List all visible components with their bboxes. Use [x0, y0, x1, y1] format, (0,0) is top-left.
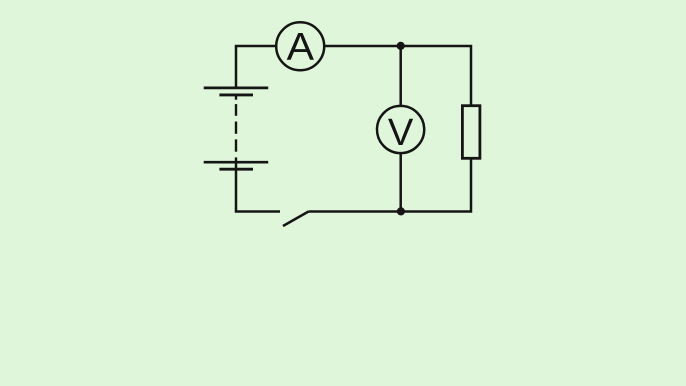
- wire: resistor bottom down to bottom-right corner then left to switch: [309, 158, 472, 212]
- battery cell B1 long plate: [204, 87, 269, 90]
- voltmeter V: [377, 106, 424, 154]
- wire: battery top to top-left corner to top-right corner down to resistor: [236, 46, 471, 106]
- node: bottom junction: [397, 207, 405, 215]
- ammeter A: [276, 22, 324, 70]
- node: top junction: [397, 42, 405, 50]
- battery cell B2 short plate: [219, 168, 253, 171]
- wire: bottom-left from switch left contact to battery bottom: [236, 162, 280, 212]
- battery cell B1 short plate: [219, 93, 253, 96]
- svg-text:V: V: [388, 111, 414, 154]
- switch S (open blade): [283, 212, 309, 227]
- svg-text:A: A: [287, 26, 315, 69]
- resistor R: [462, 106, 480, 159]
- dashed link between cells: [235, 96, 237, 164]
- battery cell B2 long plate: [204, 161, 269, 164]
- wire: voltmeter branch vertical: [399, 46, 402, 212]
